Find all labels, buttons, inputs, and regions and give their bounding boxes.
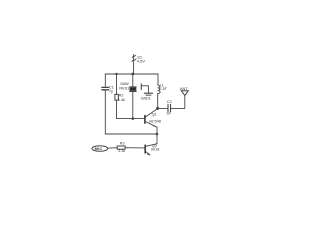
wire: R3 to Q2 base xyxy=(125,147,145,149)
svg-text:4.5V: 4.5V xyxy=(137,58,146,63)
battery/switch stub S1 xyxy=(132,54,145,74)
microphone MIC input xyxy=(92,146,108,152)
capacitor C1 xyxy=(102,86,114,94)
svg-text:7p: 7p xyxy=(109,89,113,93)
crystal XT1 (SAW resonator) xyxy=(119,82,136,91)
wire: crystal down to base node xyxy=(132,92,134,119)
case plate beside crystal xyxy=(140,84,142,90)
wire: C1 down then bottom-left run to emitter node xyxy=(105,90,157,134)
node: collector node A xyxy=(156,107,159,110)
inductor L1 xyxy=(158,83,168,93)
transistor Q1 BC548 xyxy=(145,109,161,127)
svg-text:RES1: RES1 xyxy=(119,86,129,90)
resistor R3 xyxy=(117,141,125,153)
capacitor C2 xyxy=(166,100,171,116)
svg-text:ANT: ANT xyxy=(180,86,188,91)
svg-text:R3: R3 xyxy=(120,141,125,145)
ground GND1 xyxy=(141,93,153,101)
svg-text:3.3k: 3.3k xyxy=(118,149,125,153)
svg-text:9018: 9018 xyxy=(151,148,159,152)
transistor Q2 9018 xyxy=(145,144,159,155)
svg-text:7P: 7P xyxy=(166,112,171,116)
node: emitter-feedback junction xyxy=(156,133,159,136)
svg-text:1.4k: 1.4k xyxy=(118,98,125,102)
wire: rail down to R2 xyxy=(116,74,118,94)
node: crystal-base junction xyxy=(132,117,135,120)
svg-text:MIC: MIC xyxy=(95,146,103,151)
svg-text:C2: C2 xyxy=(167,100,172,104)
wire: C2 to antenna riser xyxy=(171,95,185,108)
wire: rail down to crystal xyxy=(132,74,134,87)
svg-text:Q1: Q1 xyxy=(152,112,157,116)
resistor R2 xyxy=(115,94,125,102)
svg-text:GND1: GND1 xyxy=(141,97,151,101)
wire: L1 down to collector node xyxy=(157,93,159,108)
antenna ANT xyxy=(180,86,188,96)
wire: rail corner down-right to L1 xyxy=(157,74,159,85)
wire: top supply rail xyxy=(105,73,158,75)
wire: rail corner down-left to C1 xyxy=(104,74,106,87)
svg-text:2-5T: 2-5T xyxy=(159,87,167,91)
wire: Q1 emitter down to Q2 collector xyxy=(156,127,158,144)
svg-text:BC548: BC548 xyxy=(149,119,161,123)
node: rail-R2 junction xyxy=(115,73,117,75)
wire: R2 down, corner right to Q1 base xyxy=(117,100,145,119)
wire: MIC to R3 xyxy=(108,147,118,150)
wire: node to C2 xyxy=(158,107,168,109)
wire: plate to ground xyxy=(142,86,149,93)
node: rail-battery-crystal junction xyxy=(131,73,134,76)
